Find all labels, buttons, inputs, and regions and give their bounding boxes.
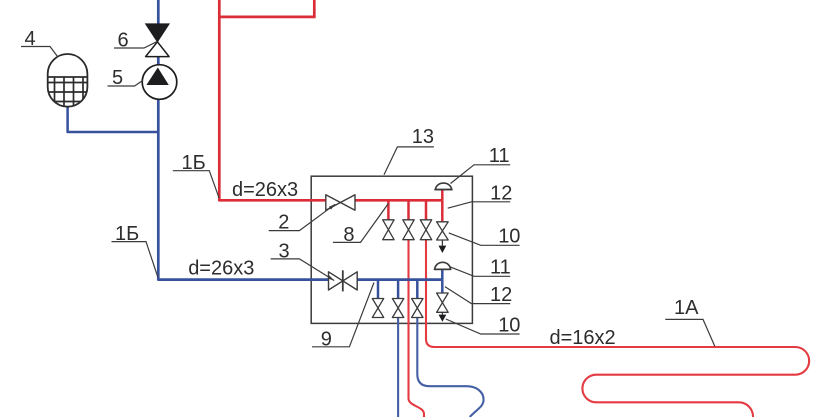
svg-text:11: 11 <box>489 145 510 167</box>
svg-text:11: 11 <box>490 257 511 279</box>
svg-text:5: 5 <box>112 67 123 89</box>
svg-text:1Б: 1Б <box>182 152 206 174</box>
svg-text:1Б: 1Б <box>115 223 139 245</box>
leader for label 12 lower <box>445 287 510 304</box>
leader for label 3 with arrowhead <box>271 259 335 281</box>
leader for label 11 lower <box>450 267 510 276</box>
leader for label 1A <box>665 319 715 346</box>
wire: blue stub up to air vent 11 lower <box>441 270 444 280</box>
wire: blue main riser above valve 6 <box>157 0 160 25</box>
leader for label 8 <box>333 204 389 243</box>
leader for label 4 <box>21 47 58 57</box>
wire: red stub down to drain valve 10 <box>441 200 444 222</box>
leader for label 6 <box>114 42 157 48</box>
loop valve 8b on red header <box>403 220 414 240</box>
svg-text:9: 9 <box>321 329 332 351</box>
loop valve 8c on red header <box>420 220 431 240</box>
wire: blue second loop return straight down <box>397 318 399 417</box>
svg-text:d=26x3: d=26x3 <box>188 258 254 280</box>
svg-text:10: 10 <box>498 314 520 336</box>
wire: red stub up to air vent 11 <box>441 190 444 201</box>
pump 5 <box>142 65 177 100</box>
wire: red supply header right of valve 2 <box>355 199 442 202</box>
wire: red supply riser down to corner 1Б <box>219 0 325 200</box>
leader for label 13 <box>384 147 434 175</box>
svg-text:10: 10 <box>498 226 520 248</box>
svg-text:13: 13 <box>412 126 434 148</box>
svg-text:3: 3 <box>279 240 290 262</box>
svg-text:8: 8 <box>343 224 354 246</box>
wire: blue header stub to loop valve a <box>377 280 380 299</box>
svg-text:2: 2 <box>278 212 289 234</box>
wire: blue return header right of valve 3 <box>356 278 442 281</box>
air vent 11 upper <box>434 183 452 189</box>
expansion tank 4 <box>48 54 88 107</box>
wire: blue riser from pump down to corner 1Б and into box <box>158 99 328 279</box>
wire: blue loop 1A return with curve <box>417 318 483 417</box>
svg-text:6: 6 <box>118 30 129 52</box>
loop valve 9c on blue header <box>412 299 423 318</box>
svg-text:4: 4 <box>25 28 36 50</box>
wire: red riser top bridge <box>219 0 314 17</box>
leader for label 12 upper <box>448 202 511 208</box>
svg-text:12: 12 <box>490 284 512 306</box>
leader for label 10 upper <box>449 233 520 245</box>
wire: expansion tank connection <box>68 106 159 132</box>
wire: blue header stub to loop valve c <box>416 280 419 299</box>
valve 2 ball valve on red supply <box>326 195 355 210</box>
svg-text:12: 12 <box>490 183 512 205</box>
wire: red header stub to loop valve a <box>387 200 390 220</box>
valve 3 balancing valve on blue return <box>329 270 358 291</box>
wire: red floor-loop 1A supply serpentine d=16x2 <box>426 240 809 417</box>
leader for label 2 with arrowhead <box>269 204 336 231</box>
leader for label 10 lower <box>446 319 520 334</box>
leader for label 1Б upper <box>173 171 219 198</box>
loop valve 9a on blue header <box>372 299 383 318</box>
leader for label 5 <box>108 81 143 87</box>
svg-text:d=16x2: d=16x2 <box>550 327 616 349</box>
air vent 11 lower <box>434 262 452 269</box>
leader for label 1Б lower <box>112 242 159 278</box>
drain valve 10 upper <box>437 222 449 253</box>
svg-text:1А: 1А <box>674 297 699 319</box>
leader for label 11 upper <box>451 165 511 184</box>
leader for label 9 <box>312 283 374 347</box>
wire: red second loop supply going off bottom with s-bend <box>409 240 425 417</box>
drain valve 10 lower <box>437 293 449 322</box>
loop valve 9b on blue header <box>392 299 403 318</box>
wire: blue riser between valve 6 and pump 5 <box>157 57 160 66</box>
wire: blue header stub to loop valve b <box>397 280 400 299</box>
manifold cabinet box 13 <box>311 176 472 323</box>
wire: red header stub to loop valve b <box>407 200 410 220</box>
svg-text:d=26x3: d=26x3 <box>232 179 298 201</box>
loop valve 8a on red header <box>383 220 394 240</box>
wire: blue stub down to drain valve 10 lower <box>441 280 444 293</box>
valve 6 on blue riser <box>146 24 170 57</box>
wire: red header stub to loop valve c <box>425 200 428 220</box>
